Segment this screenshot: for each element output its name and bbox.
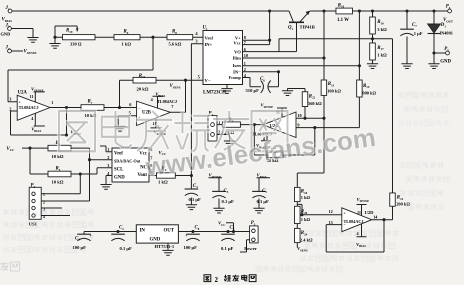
svg-text:GND: GND xyxy=(1,32,11,37)
svg-text:U2A: U2A xyxy=(18,91,28,96)
svg-text:GND: GND xyxy=(150,238,161,243)
svg-text:20 kΩ: 20 kΩ xyxy=(137,87,149,92)
svg-text:1 kΩ: 1 kΩ xyxy=(122,41,132,46)
svg-text:J2: J2 xyxy=(5,46,10,51)
svg-text:1 kΩ: 1 kΩ xyxy=(301,195,311,200)
svg-text:13: 13 xyxy=(329,220,333,225)
svg-text:P2: P2 xyxy=(31,184,36,189)
svg-text:2: 2 xyxy=(107,155,109,160)
svg-text:VBIAS: VBIAS xyxy=(2,18,13,23)
svg-text:10: 10 xyxy=(297,113,301,118)
svg-text:C3: C3 xyxy=(193,184,198,189)
svg-text:R16: R16 xyxy=(338,3,345,8)
svg-text:7: 7 xyxy=(244,40,246,45)
svg-text:IN+: IN+ xyxy=(205,42,213,47)
svg-text:5.6 kΩ: 5.6 kΩ xyxy=(169,41,182,46)
svg-text:12: 12 xyxy=(329,209,333,214)
svg-text:100 kΩ: 100 kΩ xyxy=(327,89,341,94)
svg-text:C8: C8 xyxy=(195,225,200,230)
svg-text:Ilim: Ilim xyxy=(233,56,241,61)
svg-text:+: + xyxy=(185,233,188,238)
svg-text:2: 2 xyxy=(215,276,219,284)
svg-text:510 pF: 510 pF xyxy=(246,88,260,93)
svg-text:330 Ω: 330 Ω xyxy=(70,41,82,46)
svg-text:1: 1 xyxy=(244,61,246,66)
svg-text:2: 2 xyxy=(43,200,45,204)
svg-text:IN: IN xyxy=(140,229,146,234)
svg-text:R12: R12 xyxy=(139,74,146,79)
svg-text:LM723CH: LM723CH xyxy=(203,91,226,96)
svg-text:2.4 kΩ: 2.4 kΩ xyxy=(300,238,313,243)
svg-text:R22: R22 xyxy=(309,94,316,99)
svg-text:J1: J1 xyxy=(5,6,10,11)
svg-text:R8: R8 xyxy=(172,30,177,35)
svg-text:VSENSE: VSENSE xyxy=(24,50,37,55)
svg-text:2: 2 xyxy=(9,106,11,111)
svg-text:VSENS: VSENS xyxy=(170,84,181,89)
svg-text:1: 1 xyxy=(51,100,53,105)
svg-text:P4: P4 xyxy=(446,5,451,10)
svg-text:IN4001: IN4001 xyxy=(440,30,453,35)
svg-text:TL084ACJ: TL084ACJ xyxy=(344,219,364,224)
svg-text:P3: P3 xyxy=(251,221,256,226)
svg-text:V−: V− xyxy=(205,78,211,83)
svg-text:SDA/DAC-Out: SDA/DAC-Out xyxy=(114,158,141,163)
svg-text:IN−: IN− xyxy=(233,69,241,74)
svg-text:HT7533-1: HT7533-1 xyxy=(155,244,175,249)
svg-text:Vref: Vref xyxy=(114,152,123,157)
svg-text:R14: R14 xyxy=(397,196,404,201)
svg-text:R20: R20 xyxy=(301,210,308,215)
svg-text:C9: C9 xyxy=(230,225,235,230)
svg-text:VO: VO xyxy=(234,49,241,54)
svg-text:1: 1 xyxy=(43,193,45,197)
svg-text:560 kΩ: 560 kΩ xyxy=(308,101,322,106)
svg-text:D1: D1 xyxy=(440,23,447,28)
svg-text:TIP41B: TIP41B xyxy=(300,25,315,30)
svg-text:900 kΩ: 900 kΩ xyxy=(362,90,376,95)
svg-text:GND: GND xyxy=(114,175,125,180)
svg-text:1 kΩ: 1 kΩ xyxy=(377,53,387,58)
svg-text:R15: R15 xyxy=(363,84,370,89)
svg-text:C2: C2 xyxy=(119,225,124,230)
svg-text:1 kΩ: 1 kΩ xyxy=(301,217,311,222)
svg-text:0.1 µF: 0.1 µF xyxy=(222,199,235,204)
svg-text:J1: J1 xyxy=(5,23,10,28)
svg-text:C5: C5 xyxy=(224,189,229,194)
svg-text:R7: R7 xyxy=(88,100,93,105)
svg-text:VCC: VCC xyxy=(7,147,16,152)
svg-text:1: 1 xyxy=(107,147,109,152)
svg-text:U1: U1 xyxy=(203,26,209,31)
svg-text:R13: R13 xyxy=(328,82,335,87)
svg-text:R5: R5 xyxy=(56,167,61,172)
svg-text:TL084ACJ: TL084ACJ xyxy=(157,99,177,104)
svg-text:Fcomp: Fcomp xyxy=(229,75,242,80)
svg-text:10 kΩ: 10 kΩ xyxy=(52,180,64,185)
svg-text:1.1 W: 1.1 W xyxy=(337,18,349,23)
svg-text:6: 6 xyxy=(244,47,246,52)
svg-text:Isen: Isen xyxy=(233,63,242,68)
svg-text:C7: C7 xyxy=(412,23,417,28)
svg-text:P5: P5 xyxy=(444,47,449,52)
svg-text:GND: GND xyxy=(440,60,451,65)
svg-text:TL084ACJ: TL084ACJ xyxy=(19,105,39,110)
svg-text:SCL: SCL xyxy=(114,167,123,172)
svg-text:10: 10 xyxy=(244,53,248,58)
svg-text:2: 2 xyxy=(244,67,246,72)
svg-text:R6: R6 xyxy=(124,30,129,35)
svg-text:3: 3 xyxy=(107,163,109,168)
svg-text:0.1 µF: 0.1 µF xyxy=(257,199,270,204)
svg-text:11: 11 xyxy=(357,210,361,215)
svg-text:C1: C1 xyxy=(262,189,267,194)
svg-text:VOUT: VOUT xyxy=(443,18,454,23)
svg-text:C6: C6 xyxy=(260,77,265,82)
svg-text:Power: Power xyxy=(244,246,256,251)
svg-text:11: 11 xyxy=(30,94,34,99)
svg-text:R10: R10 xyxy=(377,20,384,25)
svg-text:Q1: Q1 xyxy=(288,26,294,31)
svg-text:Vcc: Vcc xyxy=(233,40,240,45)
svg-text:4: 4 xyxy=(43,215,45,219)
svg-text:Vref: Vref xyxy=(205,35,214,40)
svg-text:100 µF: 100 µF xyxy=(184,245,198,250)
svg-text:OUT: OUT xyxy=(164,229,175,234)
svg-text:0.1 µF: 0.1 µF xyxy=(189,197,202,202)
svg-text:3 kΩ: 3 kΩ xyxy=(377,27,387,32)
svg-text:0.1 µF: 0.1 µF xyxy=(221,246,234,251)
svg-text:R19: R19 xyxy=(66,29,73,34)
svg-text:0.1 µF: 0.1 µF xyxy=(120,246,133,251)
svg-text:10 kΩ: 10 kΩ xyxy=(52,154,64,159)
svg-text:R17: R17 xyxy=(377,46,384,51)
svg-text:1 µF: 1 µF xyxy=(414,31,423,36)
svg-text:9: 9 xyxy=(297,123,299,128)
